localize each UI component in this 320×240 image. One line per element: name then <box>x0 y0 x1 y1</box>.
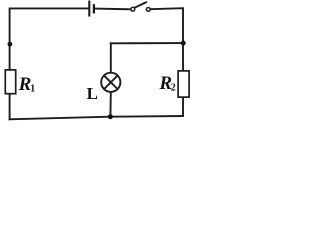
wire bottom <box>10 116 183 119</box>
resistor R2 box <box>178 71 189 97</box>
resistor R1 box <box>5 70 15 94</box>
battery cell long plate <box>88 2 90 16</box>
junction dot on left wire <box>7 42 12 47</box>
switch terminal circle left <box>131 7 135 11</box>
wire lamp top lead <box>110 43 112 73</box>
svg-text:L: L <box>87 84 98 103</box>
battery cell short plate <box>93 5 95 12</box>
svg-text:1: 1 <box>30 83 35 94</box>
lamp X cross <box>104 76 117 89</box>
junction node bottom (lamp branch to bottom wire) <box>108 114 113 119</box>
switch lever <box>134 2 146 8</box>
lamp L circle <box>101 73 120 92</box>
wire top-left (battery negative to left corner) <box>10 8 88 119</box>
wire right side <box>150 8 183 116</box>
switch terminal circle right <box>146 7 150 11</box>
wire lamp bottom lead <box>109 92 111 117</box>
junction node right (lamp branch to right wire) <box>181 41 186 46</box>
wire lamp branch horizontal to right wire <box>111 42 183 44</box>
svg-text:2: 2 <box>171 83 176 94</box>
wire battery to switch <box>95 8 130 11</box>
